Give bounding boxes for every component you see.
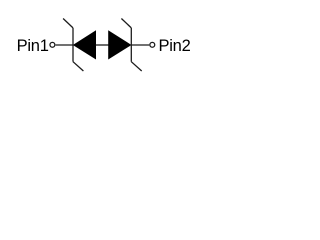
diode D1 cathode bottom flag — [73, 62, 83, 71]
diode D1 cathode top flag — [63, 19, 73, 28]
diode D2 cathode bottom flag — [131, 62, 141, 71]
diode D2 cathode top flag — [121, 19, 131, 28]
svg-text:Pin1: Pin1 — [17, 37, 49, 55]
diode D1 zener cathode bar — [72, 28, 74, 62]
wire D2 cathode to Pin2 terminal — [131, 44, 149, 46]
diode D2 triangle (anode, pointing right) — [109, 31, 131, 59]
wire Pin1 terminal to D1 cathode — [56, 44, 73, 46]
svg-text:Pin2: Pin2 — [159, 37, 191, 55]
wire D1 anode to D2 anode — [96, 44, 109, 46]
terminal circle Pin1 — [50, 42, 55, 47]
diode D2 zener cathode bar — [130, 28, 132, 62]
diode D1 triangle (anode, pointing left) — [73, 31, 95, 59]
terminal circle Pin2 — [150, 42, 155, 47]
